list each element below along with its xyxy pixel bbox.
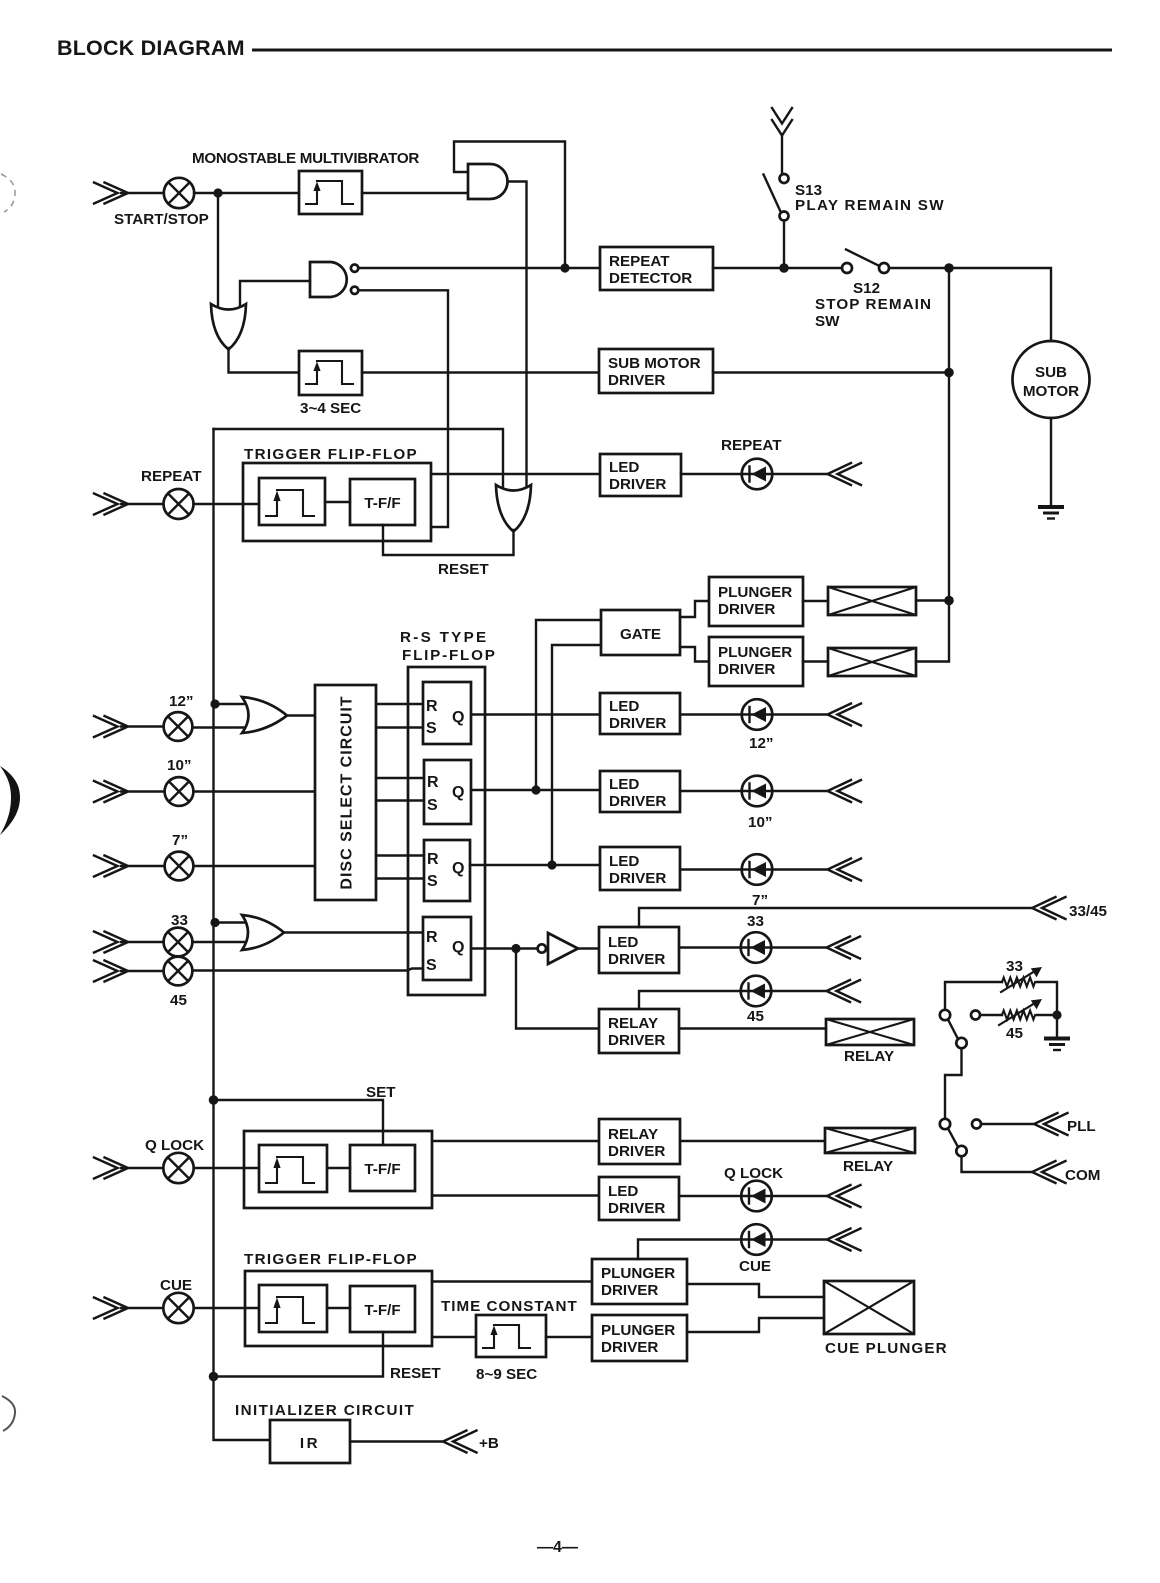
wire sub motor driver output <box>713 371 949 373</box>
wire 45 contact to rheostat <box>980 1014 1002 1016</box>
lamp Q LOCK <box>163 1153 193 1183</box>
lamp 10inch <box>165 777 194 806</box>
rheostat 45 arrow <box>999 999 1042 1025</box>
output arrow +B <box>443 1431 477 1453</box>
relay coil (q lock crossed box) <box>825 1128 915 1153</box>
svg-text:R: R <box>427 774 439 791</box>
wire input to Q LOCK lamp <box>121 1167 163 1169</box>
wire bus to 33 OR <box>215 921 258 923</box>
wire CUE LED feed <box>638 1240 827 1260</box>
wire lamp to monostable box <box>194 192 299 194</box>
initializer IR box <box>270 1420 350 1463</box>
wire S13 to node <box>783 221 785 269</box>
svg-text:Q: Q <box>452 709 464 726</box>
monostable multivibrator box U1 <box>299 171 362 214</box>
wire 12inch lamp to OR <box>193 726 259 728</box>
speed switch lower pole <box>956 1146 966 1156</box>
wire pulse to T-F/F (q lock) <box>327 1167 350 1169</box>
svg-text:RELAY: RELAY <box>608 1015 658 1032</box>
relay driver box (33/45) <box>599 1009 679 1053</box>
wire input to 7inch lamp <box>121 865 165 867</box>
wire REPEAT lamp to trigger flip-flop <box>194 503 261 505</box>
wire pulse to T-F/F <box>325 501 350 503</box>
svg-text:8~9 SEC: 8~9 SEC <box>476 1366 537 1383</box>
rheostat 45 zigzag <box>1002 1011 1035 1020</box>
LED indicator 7 <box>742 854 773 885</box>
supply rail down to plungers <box>916 268 949 662</box>
LED indicator 12 <box>742 699 773 730</box>
trigger flip-flop outer box (q lock) <box>244 1131 432 1208</box>
wire input to 33 lamp <box>121 941 164 943</box>
lamp 45 <box>164 957 193 986</box>
wire input to 12inch lamp <box>121 725 164 727</box>
wire flip-flop to plunger driver 3 <box>432 1280 592 1282</box>
lamp REPEAT <box>164 489 194 519</box>
svg-text:DRIVER: DRIVER <box>608 1200 665 1217</box>
inverter bubble <box>538 944 546 952</box>
wire gate output to plunger driver 1 <box>680 601 709 617</box>
output arrow 33/45 <box>1032 897 1066 919</box>
wire RS4 Q to relay driver <box>516 949 599 1029</box>
title rule <box>252 49 1112 52</box>
wire 7inch lamp to disc select <box>194 865 316 867</box>
svg-text:PLL: PLL <box>1067 1118 1096 1135</box>
output arrow 10 <box>828 780 862 802</box>
trigger pulse box <box>259 478 325 525</box>
wire NAND bottom output down into repeat flip-flop <box>359 290 449 527</box>
lamp 7inch <box>165 852 194 881</box>
wire time constant to plunger driver 4 <box>546 1336 592 1338</box>
lamp 12inch <box>164 712 193 741</box>
wire disc select to RS3 S <box>376 877 424 879</box>
svg-text:LED: LED <box>609 853 639 870</box>
svg-text:Q LOCK: Q LOCK <box>724 1165 783 1182</box>
wire 3-4sec output to sub motor driver <box>362 371 599 373</box>
wire input to START/STOP lamp <box>121 192 164 194</box>
svg-text:DRIVER: DRIVER <box>609 793 666 810</box>
wire LED driver 10 to LED <box>680 790 827 792</box>
svg-text:RELAY: RELAY <box>843 1158 893 1175</box>
svg-text:10”: 10” <box>748 814 773 831</box>
input arrow 45 <box>94 961 128 982</box>
junction dot gate tap 10inch <box>531 785 540 794</box>
OR gate (12inch) <box>242 697 287 733</box>
wire RS1 Q to LED driver 12 <box>471 713 600 715</box>
switch S12 STOP REMAIN SW <box>842 250 889 274</box>
svg-text:RESET: RESET <box>390 1365 441 1382</box>
gate box <box>601 610 680 655</box>
wire CUE lamp to flip-flop <box>194 1307 260 1309</box>
svg-text:LED: LED <box>608 934 638 951</box>
output arrow PLL <box>1034 1113 1068 1135</box>
contact PLL circle <box>972 1120 981 1129</box>
svg-text:12”: 12” <box>169 693 194 710</box>
svg-text:Q: Q <box>452 784 464 801</box>
LED indicator 10 <box>742 776 773 807</box>
output arrow 12 <box>828 704 862 726</box>
LED driver box 7 <box>600 847 680 890</box>
inverter triangle <box>548 933 578 964</box>
wire LED driver 33 to LED <box>679 946 827 948</box>
wire detector output to S12 <box>713 267 842 269</box>
wire plunger driver 1 to solenoid <box>803 600 828 602</box>
wire 33 contact feed <box>945 982 1002 1010</box>
plunger driver box 4 <box>592 1315 687 1361</box>
wire antenna to S13 <box>781 135 783 173</box>
main bus wire (left vertical) <box>214 429 271 1440</box>
RS flip-flop 2 (10inch) <box>424 760 471 824</box>
wire bus junction down to OR gate <box>217 193 219 306</box>
wire plunger driver 2 to solenoid <box>803 660 828 662</box>
junction dot at START/STOP lamp output <box>213 188 222 197</box>
OR gate (start/stop + nand mix) <box>211 304 246 350</box>
speed switch upper contact <box>940 1010 950 1020</box>
svg-text:REPEAT: REPEAT <box>609 253 670 270</box>
NAND output bubble bottom <box>351 287 358 294</box>
svg-text:CUE: CUE <box>160 1277 192 1294</box>
binder hole arc top <box>1 174 15 212</box>
solenoid coil 2 (crossed box) <box>828 648 916 676</box>
OR gate (33/45) <box>242 915 284 950</box>
svg-text:TRIGGER FLIP-FLOP: TRIGGER FLIP-FLOP <box>244 446 418 463</box>
RS flip-flop 3 (7inch) <box>424 840 470 901</box>
wire 33 lamp to OR <box>193 941 259 943</box>
svg-text:PLAY REMAIN SW: PLAY REMAIN SW <box>795 197 945 214</box>
solenoid coil 1 (crossed box) <box>828 587 916 615</box>
wire gate output to plunger driver 2 <box>680 647 709 662</box>
wire disc select to RS1 S <box>376 726 423 728</box>
plunger driver box 2 <box>709 637 803 686</box>
T-F/F box (repeat) <box>350 479 415 525</box>
svg-text:DRIVER: DRIVER <box>718 601 775 618</box>
NAND gate <box>310 262 347 297</box>
wire reset OR output to T-F/F <box>383 525 514 555</box>
junction dot rheostat node <box>1052 1010 1061 1019</box>
wire RS4 Q to inverter <box>471 947 537 949</box>
trigger pulse symbol <box>266 490 314 516</box>
ground (sub motor) <box>1038 507 1064 519</box>
svg-text:SUB MOTOR: SUB MOTOR <box>608 355 701 372</box>
svg-text:RELAY: RELAY <box>844 1048 894 1065</box>
wire sub motor to ground <box>1050 418 1052 506</box>
svg-text:DISC SELECT CIRCUIT: DISC SELECT CIRCUIT <box>339 695 356 889</box>
junction dot S13/S12 node <box>779 263 789 273</box>
wire disc select to RS1 R <box>376 703 423 705</box>
wire RS2 Q to LED driver 10 <box>471 789 600 791</box>
svg-text:7”: 7” <box>172 832 188 849</box>
svg-text:R: R <box>426 929 438 946</box>
input arrow Q LOCK <box>94 1158 128 1179</box>
svg-text:INITIALIZER CIRCUIT: INITIALIZER CIRCUIT <box>235 1402 415 1419</box>
RS flip-flop 1 (12inch) <box>423 682 471 744</box>
input arrow START/STOP <box>94 183 128 204</box>
T-F/F box (q lock) <box>350 1145 415 1191</box>
wire inverter to LED driver 33 <box>578 947 599 949</box>
wire pole to COM <box>962 1157 1033 1173</box>
antenna symbol (power feed) <box>772 108 792 136</box>
contact 45 circle <box>971 1011 980 1020</box>
wire disc select to RS2 R <box>376 777 424 779</box>
svg-text:7”: 7” <box>752 892 768 909</box>
svg-text:DRIVER: DRIVER <box>608 1143 665 1160</box>
wire relay driver to relay coil (q lock) <box>680 1140 825 1142</box>
svg-text:R: R <box>426 698 438 715</box>
wire NAND input <box>240 281 310 306</box>
LED indicator 45 <box>741 976 772 1007</box>
plunger driver box 1 <box>709 577 803 626</box>
svg-text:Q: Q <box>452 860 464 877</box>
svg-text:PLUNGER: PLUNGER <box>718 644 792 661</box>
svg-text:45: 45 <box>170 992 187 1009</box>
svg-text:T-F/F: T-F/F <box>364 495 400 512</box>
junction dot RS4 Q <box>511 944 520 953</box>
svg-text:S: S <box>426 957 437 974</box>
wire RS3 Q to LED driver 7 <box>470 864 600 866</box>
svg-text:DRIVER: DRIVER <box>609 870 666 887</box>
svg-text:45: 45 <box>1006 1025 1023 1042</box>
svg-text:Q LOCK: Q LOCK <box>145 1137 204 1154</box>
wire 10inch lamp to disc select <box>194 790 316 792</box>
plunger driver box 3 <box>592 1259 687 1304</box>
wire 45 LED feed <box>639 991 827 1009</box>
svg-text:LED: LED <box>608 1183 638 1200</box>
speed switch upper pole <box>956 1038 966 1048</box>
svg-text:LED: LED <box>609 776 639 793</box>
speed switch lower contact <box>940 1119 950 1129</box>
svg-text:RESET: RESET <box>438 561 489 578</box>
svg-text:CUE: CUE <box>739 1258 771 1275</box>
svg-text:CUE PLUNGER: CUE PLUNGER <box>825 1340 948 1357</box>
wire monostable to AND gate <box>362 192 468 194</box>
wire LED driver to LED (q lock) <box>679 1195 827 1197</box>
junction dot gate tap 7inch <box>547 860 556 869</box>
svg-text:SW: SW <box>815 313 840 330</box>
sub motor M1 <box>1013 341 1090 418</box>
svg-text:45: 45 <box>747 1008 764 1025</box>
junction dot bus/12inch OR <box>210 699 219 708</box>
LED driver box 10 <box>600 771 680 812</box>
svg-text:33: 33 <box>171 912 188 929</box>
junction dot plunger supply <box>944 596 954 606</box>
svg-text:PLUNGER: PLUNGER <box>601 1265 675 1282</box>
time constant pulse symbol <box>483 1325 530 1348</box>
LED driver box 33 <box>599 927 679 973</box>
svg-text:SET: SET <box>366 1084 396 1101</box>
svg-text:DRIVER: DRIVER <box>608 372 665 389</box>
output arrow 45 <box>827 980 861 1002</box>
wire input to 45 lamp <box>121 970 164 972</box>
sub motor driver box <box>599 349 713 393</box>
trigger flip-flop outer box (cue) <box>245 1271 432 1346</box>
svg-text:DRIVER: DRIVER <box>609 476 666 493</box>
wire relay driver to relay coil <box>679 1027 826 1029</box>
junction dot bus SET <box>209 1095 219 1105</box>
LED indicator 33 <box>741 932 772 963</box>
wire IR to +B <box>350 1440 443 1442</box>
wire plunger driver 4 to cue plunger <box>687 1318 824 1332</box>
svg-text:DRIVER: DRIVER <box>608 951 665 968</box>
wire LED driver to repeat LED <box>681 473 827 475</box>
svg-text:S: S <box>427 873 438 890</box>
svg-text:PLUNGER: PLUNGER <box>718 584 792 601</box>
junction dot feedback / detector input <box>560 263 569 272</box>
R-S flip-flop outer box <box>408 667 485 995</box>
junction dot sub motor driver output <box>944 368 954 378</box>
LED driver box 12 <box>600 693 680 734</box>
svg-text:DETECTOR: DETECTOR <box>609 270 692 287</box>
wire LED driver 7 to LED <box>680 868 827 870</box>
input arrow 33 <box>94 932 128 953</box>
wire OR output to disc select <box>286 714 315 716</box>
wire input to 10inch lamp <box>121 790 165 792</box>
wire PLL contact out <box>982 1123 1035 1125</box>
trigger pulse box (q lock) <box>259 1145 327 1192</box>
input arrow CUE <box>94 1298 128 1319</box>
svg-text:33: 33 <box>1006 958 1023 975</box>
svg-text:Q: Q <box>452 939 464 956</box>
svg-text:TIME CONSTANT: TIME CONSTANT <box>441 1298 578 1315</box>
wire flip-flop to LED driver (q lock) <box>432 1194 599 1196</box>
svg-text:—4—: —4— <box>537 1539 578 1556</box>
T-F/F box (cue) <box>350 1286 415 1332</box>
relay driver box (q lock) <box>599 1119 680 1164</box>
svg-text:R: R <box>427 851 439 868</box>
LED indicator (repeat) <box>742 459 773 490</box>
svg-text:10”: 10” <box>167 757 192 774</box>
svg-text:MONOSTABLE MULTIVIBRATOR: MONOSTABLE MULTIVIBRATOR <box>192 150 419 167</box>
svg-text:DRIVER: DRIVER <box>609 715 666 732</box>
output arrow 7 <box>828 859 862 881</box>
svg-text:LED: LED <box>609 698 639 715</box>
svg-text:DRIVER: DRIVER <box>718 661 775 678</box>
NAND output bubble top <box>351 265 358 272</box>
svg-text:S: S <box>427 797 438 814</box>
svg-text:BLOCK DIAGRAM: BLOCK DIAGRAM <box>57 36 245 60</box>
wire AND output down to reset OR <box>509 182 527 490</box>
wire flip-flop to LED driver (repeat) <box>431 473 600 475</box>
svg-text:DRIVER: DRIVER <box>608 1032 665 1049</box>
input arrow 7inch <box>94 856 128 877</box>
svg-text:SUB: SUB <box>1035 364 1067 381</box>
wire input to REPEAT lamp <box>121 503 164 505</box>
svg-text:S12: S12 <box>853 280 880 297</box>
output arrow (cue led) <box>827 1229 861 1251</box>
wire RESET line (cue) <box>214 1332 384 1377</box>
binder hole arc bottom <box>2 1396 15 1431</box>
svg-text:+B: +B <box>479 1435 499 1452</box>
LED driver box (q lock) <box>599 1177 679 1220</box>
svg-text:RELAY: RELAY <box>608 1126 658 1143</box>
rheostat 33 arrow <box>1001 967 1042 992</box>
svg-text:GATE: GATE <box>620 626 661 643</box>
wire SET line <box>214 1100 384 1145</box>
junction dot bus/33 OR <box>210 918 219 927</box>
svg-text:FLIP-FLOP: FLIP-FLOP <box>402 647 497 664</box>
LED driver box (repeat) <box>600 454 681 496</box>
input arrow 10inch <box>94 781 128 802</box>
wire 33/45 output line <box>639 908 1032 927</box>
output arrow 33 <box>827 937 861 959</box>
svg-text:S: S <box>426 720 437 737</box>
cue plunger (crossed box) <box>824 1281 914 1334</box>
wire gate input A from 10inch Q <box>536 620 601 790</box>
svg-text:DRIVER: DRIVER <box>601 1339 658 1356</box>
switch S13 PLAY REMAIN SW <box>764 174 789 221</box>
wire gate input B from 7inch Q <box>552 645 601 865</box>
output arrow COM <box>1032 1161 1066 1183</box>
svg-text:33: 33 <box>747 913 764 930</box>
junction dot supply top <box>944 263 954 273</box>
time constant box <box>476 1315 546 1357</box>
trigger pulse box (cue) <box>259 1285 327 1332</box>
svg-text:REPEAT: REPEAT <box>141 468 202 485</box>
wire plunger driver 3 to cue plunger <box>687 1284 824 1297</box>
disc select circuit box <box>315 685 376 900</box>
lamp START/STOP <box>164 178 194 208</box>
input arrow REPEAT <box>94 494 128 515</box>
AND gate <box>468 164 508 199</box>
rheostat 33 zigzag <box>1002 978 1035 987</box>
svg-text:TRIGGER FLIP-FLOP: TRIGGER FLIP-FLOP <box>244 1251 418 1268</box>
svg-text:COM: COM <box>1065 1167 1100 1184</box>
svg-text:DRIVER: DRIVER <box>601 1282 658 1299</box>
relay coil (33/45 crossed box) <box>826 1019 914 1045</box>
LED indicator (cue) <box>741 1224 772 1255</box>
ground (rheostat) <box>1044 1039 1070 1051</box>
wire pulse to T-F/F (cue) <box>327 1307 350 1309</box>
wire Q LOCK lamp to flip-flop <box>194 1167 260 1169</box>
svg-text:STOP REMAIN: STOP REMAIN <box>815 296 932 313</box>
wire NAND top output to repeat detector <box>359 267 601 269</box>
svg-text:MOTOR: MOTOR <box>1023 383 1079 400</box>
svg-text:3~4 SEC: 3~4 SEC <box>300 400 361 417</box>
wire LED driver 12 to LED <box>680 713 827 715</box>
wire bus to 12inch OR <box>215 703 258 705</box>
lamp 33 <box>164 928 193 957</box>
repeat detector box <box>600 247 713 290</box>
svg-text:START/STOP: START/STOP <box>114 211 209 228</box>
wire pole link <box>945 1049 962 1119</box>
wire disc select to RS2 S <box>376 799 424 801</box>
wire input to CUE lamp <box>121 1307 163 1309</box>
output arrow (repeat led) <box>828 463 862 485</box>
speed switch lower arm <box>948 1129 958 1148</box>
svg-text:T-F/F: T-F/F <box>364 1302 400 1319</box>
svg-text:T-F/F: T-F/F <box>364 1161 400 1178</box>
lamp CUE <box>163 1293 193 1323</box>
wire S12 to sub motor <box>889 268 1051 341</box>
wire 33 rheostat to node <box>1037 982 1057 1015</box>
input arrow 12inch <box>94 716 128 737</box>
wire flip-flop to relay driver (q lock) <box>432 1140 599 1142</box>
junction dot bus RESET <box>209 1372 219 1382</box>
3~4 sec pulse box <box>299 351 362 395</box>
svg-text:12”: 12” <box>749 735 774 752</box>
RS flip-flop 4 (33/45) <box>423 917 471 980</box>
svg-text:REPEAT: REPEAT <box>721 437 782 454</box>
trigger pulse symbol (cue) <box>266 1297 314 1323</box>
monostable pulse symbol <box>306 181 353 204</box>
wire disc select to RS3 R <box>376 854 424 856</box>
output arrow (q lock led) <box>827 1185 861 1207</box>
wire 45 rheostat to node <box>1037 1014 1057 1016</box>
binder hole mark middle <box>0 766 20 835</box>
wire OR output to RS4 R input <box>283 931 423 933</box>
speed switch upper arm <box>948 1020 958 1040</box>
wire solenoid 1 to supply <box>916 599 949 601</box>
LED indicator (q lock) <box>741 1181 772 1212</box>
trigger flip-flop outer box (repeat) <box>243 463 431 541</box>
